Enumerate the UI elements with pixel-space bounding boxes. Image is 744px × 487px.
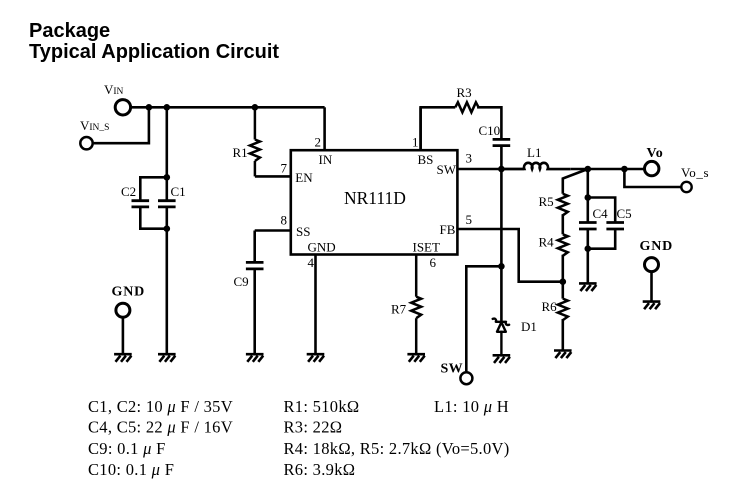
- ground under R6: [554, 351, 572, 359]
- node output junction 2: [621, 166, 628, 173]
- svg-text:C9: C9: [234, 274, 249, 289]
- wire output to C4/C5: [586, 169, 589, 223]
- wire to SW terminal: [466, 266, 501, 371]
- svg-text:C10: 0.1 μ F: C10: 0.1 μ F: [88, 460, 174, 479]
- wire BS to R3: [421, 107, 456, 150]
- svg-text:R6: 3.9kΩ: R6: 3.9kΩ: [284, 460, 356, 479]
- svg-text:R4: R4: [539, 235, 555, 250]
- wire C5 top bracket: [588, 198, 615, 223]
- svg-text:3: 3: [466, 151, 473, 166]
- resistor R5: [558, 194, 568, 216]
- terminal SW: [460, 372, 472, 384]
- svg-text:Package: Package: [29, 20, 110, 42]
- node SW junction: [498, 166, 505, 173]
- wire GND right to ground: [650, 272, 653, 302]
- svg-text:2: 2: [315, 135, 322, 150]
- wire rail to C1/C2: [166, 107, 169, 177]
- svg-text:NR111D: NR111D: [344, 188, 406, 208]
- ground under GND left: [114, 354, 132, 362]
- resistor R3: [455, 102, 478, 112]
- diode D1 zener: [493, 319, 509, 356]
- pin 2 IN wire: [323, 107, 326, 150]
- svg-text:SW: SW: [441, 361, 463, 376]
- node SW branch junction: [498, 263, 505, 270]
- svg-text:8: 8: [281, 213, 288, 228]
- pin 1 BS wire: [419, 107, 422, 150]
- ground under pin 4: [307, 354, 325, 362]
- capacitor C5: [606, 223, 624, 230]
- capacitor C9: [246, 231, 264, 355]
- wire diagonal to R5: [563, 169, 588, 194]
- pin 8 SS wire: [255, 229, 291, 232]
- terminal GND right: [645, 258, 659, 272]
- svg-text:5: 5: [466, 212, 473, 227]
- wire C5 bottom bracket: [588, 229, 615, 249]
- wire SW column down (C10 node to D1): [500, 169, 503, 322]
- node FB/R4/R6 junction: [560, 278, 567, 285]
- ground under R7: [407, 354, 425, 362]
- resistor R1: [250, 107, 260, 176]
- ground under D1: [493, 355, 511, 363]
- ground under C1/C2: [158, 354, 176, 362]
- node junction rail/C1C2: [164, 104, 171, 111]
- capacitor C4: [579, 223, 597, 230]
- value list column 1: [88, 397, 233, 479]
- title: [29, 20, 279, 63]
- svg-text:D1: D1: [521, 319, 537, 334]
- svg-text:L1: L1: [527, 145, 541, 160]
- pin 3 SW wire: [457, 168, 524, 171]
- wire L1 to Vo: [571, 168, 644, 171]
- svg-text:GND: GND: [640, 239, 674, 254]
- capacitor C1: [158, 201, 176, 207]
- svg-text:R3: R3: [457, 85, 472, 100]
- wire R6 to ground: [561, 319, 564, 351]
- svg-text:R7: R7: [391, 302, 407, 317]
- wire R1 to EN pin 7: [255, 175, 291, 178]
- node junction rail/VIN_s: [146, 104, 153, 111]
- wire R3 to C10: [477, 107, 501, 139]
- svg-text:6: 6: [430, 255, 437, 270]
- svg-text:Vo: Vo: [647, 146, 664, 161]
- ground under GND right: [643, 302, 661, 310]
- svg-text:C4, C5: 22 μ F / 16V: C4, C5: 22 μ F / 16V: [88, 418, 233, 437]
- svg-text:IN: IN: [319, 152, 333, 167]
- pin 6 ISET wire + resistor R7: [411, 255, 421, 355]
- ground under C4/C5: [579, 283, 597, 291]
- svg-text:BS: BS: [418, 152, 434, 167]
- value list column 3: [434, 397, 509, 416]
- svg-text:R1: R1: [233, 145, 248, 160]
- svg-text:C1: C1: [171, 184, 186, 199]
- wire VIN to rail: [131, 106, 325, 109]
- node junction rail/R1: [252, 104, 259, 111]
- svg-text:SW: SW: [437, 162, 457, 177]
- resistor R4: [558, 234, 568, 256]
- wire VIN_s to rail: [94, 107, 149, 143]
- svg-text:R6: R6: [542, 299, 558, 314]
- svg-text:Typical Application Circuit: Typical Application Circuit: [29, 41, 279, 63]
- capacitor C2: [132, 201, 150, 207]
- capacitor C10: [493, 139, 511, 145]
- svg-text:1: 1: [412, 135, 419, 150]
- terminal GND left: [116, 303, 130, 317]
- wire C1 plate to top node: [166, 177, 169, 200]
- terminal VIN_s: [80, 137, 92, 149]
- terminal VIN: [115, 100, 130, 115]
- svg-text:L1: 10 μ H: L1: 10 μ H: [434, 397, 509, 416]
- svg-text:GND: GND: [308, 239, 336, 254]
- pin 5 FB wire: [457, 229, 562, 282]
- svg-text:C4: C4: [593, 206, 609, 221]
- svg-text:ISET: ISET: [413, 239, 441, 254]
- node output junction 1: [585, 166, 592, 173]
- svg-text:7: 7: [281, 160, 288, 175]
- wire C1 bottom to ground: [166, 207, 169, 354]
- op IC U1 NR111D box: [291, 150, 458, 254]
- ground under C9: [246, 354, 264, 362]
- wire C4 to ground: [586, 229, 589, 283]
- wire C10 to SW node: [500, 146, 503, 169]
- terminal Vo_s: [681, 182, 691, 192]
- wire C2 top bracket: [140, 177, 167, 200]
- svg-text:C2: C2: [121, 184, 136, 199]
- wire R5 to R4: [561, 214, 564, 234]
- svg-text:4: 4: [308, 255, 315, 270]
- svg-text:EN: EN: [295, 170, 313, 185]
- svg-text:R5: R5: [539, 194, 554, 209]
- node C1 top: [164, 174, 171, 181]
- node C1 bottom: [164, 225, 171, 232]
- value list column 2: [284, 397, 510, 479]
- svg-text:C1, C2: 10 μ F / 35V: C1, C2: 10 μ F / 35V: [88, 397, 233, 416]
- svg-text:C10: C10: [479, 123, 501, 138]
- pin 4 GND wire: [314, 255, 317, 355]
- svg-text:R3: 22Ω: R3: 22Ω: [284, 418, 343, 437]
- node C4 bottom: [585, 245, 592, 252]
- node C4 top: [585, 194, 592, 201]
- svg-text:GND: GND: [112, 285, 146, 300]
- svg-text:C5: C5: [617, 206, 632, 221]
- svg-text:Vo_s: Vo_s: [681, 165, 709, 180]
- svg-text:R1: 510kΩ: R1: 510kΩ: [284, 397, 360, 416]
- svg-text:R4: 18kΩ, R5: 2.7kΩ (Vo=5.0V): R4: 18kΩ, R5: 2.7kΩ (Vo=5.0V): [284, 439, 510, 458]
- inductor L1: [501, 163, 570, 169]
- wire R4 to FB node: [561, 255, 564, 299]
- wire C2 bottom bracket: [140, 207, 167, 229]
- wire GND left to ground: [122, 317, 125, 354]
- resistor R6: [558, 299, 568, 321]
- terminal Vo: [645, 161, 659, 175]
- svg-text:SS: SS: [296, 224, 310, 239]
- svg-text:FB: FB: [440, 222, 456, 237]
- svg-text:C9: 0.1 μ F: C9: 0.1 μ F: [88, 439, 166, 458]
- wire to Vo_s: [624, 169, 680, 187]
